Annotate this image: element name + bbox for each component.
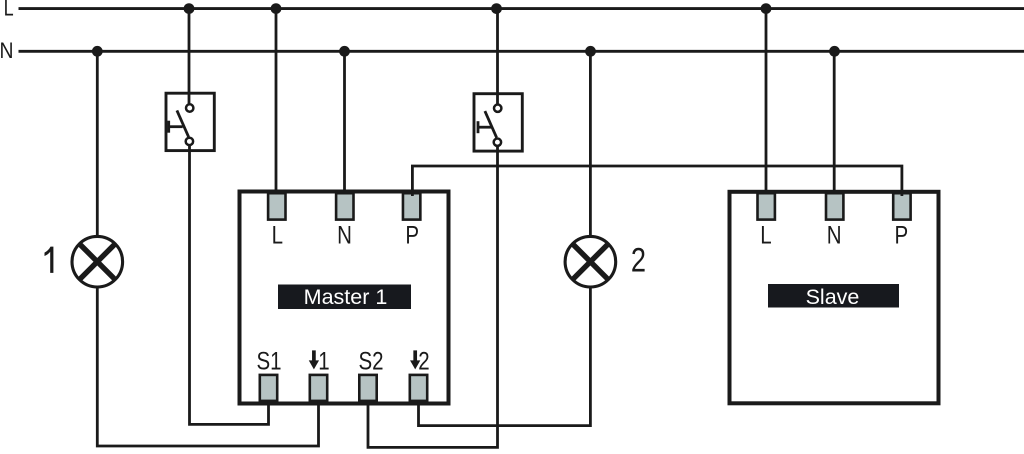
wire N bus to slave terminal N	[833, 51, 836, 196]
master terminal arrow-1 output	[310, 375, 327, 401]
master terminal P	[403, 193, 420, 219]
svg-text:N: N	[827, 221, 842, 249]
net N bus	[19, 50, 1024, 53]
slave terminal P	[893, 193, 910, 219]
svg-text:S2: S2	[358, 347, 383, 375]
junction N bus / lamp E2	[585, 46, 596, 57]
pushbutton S2	[474, 94, 522, 151]
junction N bus / lamp E1	[92, 46, 103, 57]
master terminal arrow-2 output	[410, 375, 427, 401]
lamp E2	[565, 236, 616, 287]
wire N bus to master terminal N	[343, 51, 346, 196]
wire pushbutton S1 to master terminal S1	[190, 146, 269, 424]
svg-text:L: L	[4, 0, 14, 21]
wire lamp E1 to master output arrow-1	[97, 287, 318, 447]
slave unit box	[730, 192, 939, 403]
svg-text:L: L	[760, 221, 771, 249]
junction L bus / pushbutton S1 feed	[184, 3, 195, 14]
svg-text:2: 2	[631, 241, 646, 280]
svg-text:Slave: Slave	[806, 285, 860, 309]
junction N bus / slave terminal N	[829, 46, 840, 57]
svg-text:P: P	[405, 221, 419, 249]
svg-text:2: 2	[418, 347, 429, 375]
junction L bus / master terminal L	[271, 3, 282, 14]
junction L bus / slave terminal L	[761, 3, 772, 14]
label plate Master 1	[278, 285, 411, 310]
wire N bus to lamp E2	[589, 51, 592, 237]
svg-text:N: N	[0, 39, 13, 63]
pin label arrow-2	[410, 347, 430, 375]
wire lamp E2 to master output arrow-2	[419, 287, 591, 426]
pin label arrow-1	[309, 347, 330, 375]
svg-text:Master 1: Master 1	[304, 285, 388, 309]
lamp E1	[72, 236, 123, 287]
slave terminal L	[758, 193, 775, 219]
pushbutton S1	[166, 93, 214, 150]
wire N bus to lamp E1	[96, 51, 99, 237]
svg-text:S1: S1	[256, 347, 281, 375]
wire pushbutton S2 to master terminal S2	[368, 147, 498, 448]
label plate Slave	[768, 284, 899, 309]
wire L bus to pushbutton S2	[496, 9, 499, 104]
svg-text:L: L	[272, 221, 283, 249]
master terminal S1	[260, 375, 277, 401]
svg-text:N: N	[337, 221, 352, 249]
wire master terminal P to slave terminal P	[412, 166, 902, 196]
wire L bus to slave terminal L	[765, 9, 768, 196]
junction N bus / master terminal N	[339, 46, 350, 57]
master terminal N	[336, 193, 353, 219]
wire L bus to master terminal L	[275, 9, 278, 196]
net L bus	[19, 7, 1024, 10]
master terminal S2	[359, 375, 376, 401]
master unit box	[240, 192, 449, 404]
master terminal L	[268, 193, 285, 219]
label lamp 1	[45, 247, 54, 273]
wire L bus to pushbutton S1	[188, 9, 191, 104]
svg-text:P: P	[894, 221, 908, 249]
slave terminal N	[826, 193, 843, 219]
junction L bus / pushbutton S2 feed	[491, 3, 502, 14]
svg-text:1: 1	[318, 347, 329, 375]
